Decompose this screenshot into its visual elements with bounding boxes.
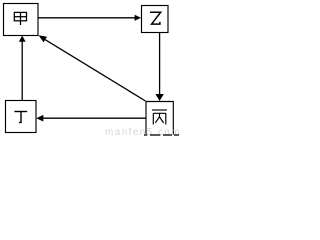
wire DING to JIA [21, 41, 23, 101]
glyph YI [150, 12, 161, 24]
glyph BING [152, 110, 167, 125]
box BING (bottom-right) [146, 102, 173, 135]
wire YI to BING [159, 33, 161, 96]
wire JIA to YI [38, 17, 135, 19]
wire BING to JIA diagonal [44, 39, 146, 101]
box YI (top-right) [142, 6, 169, 33]
arrowhead into YI [135, 15, 141, 21]
BING box bottom edge dashes [144, 134, 179, 136]
arrowhead into JIA corner [39, 35, 48, 42]
arrowhead into BING [155, 94, 163, 101]
box DING (bottom-left) [6, 101, 37, 133]
arrowhead into JIA bottom [19, 36, 26, 42]
box JIA (top-left) [4, 4, 39, 36]
glyph DING [14, 112, 27, 123]
arrowhead into DING [36, 115, 43, 122]
wire BING to DING [43, 117, 147, 119]
glyph JIA [14, 12, 26, 25]
